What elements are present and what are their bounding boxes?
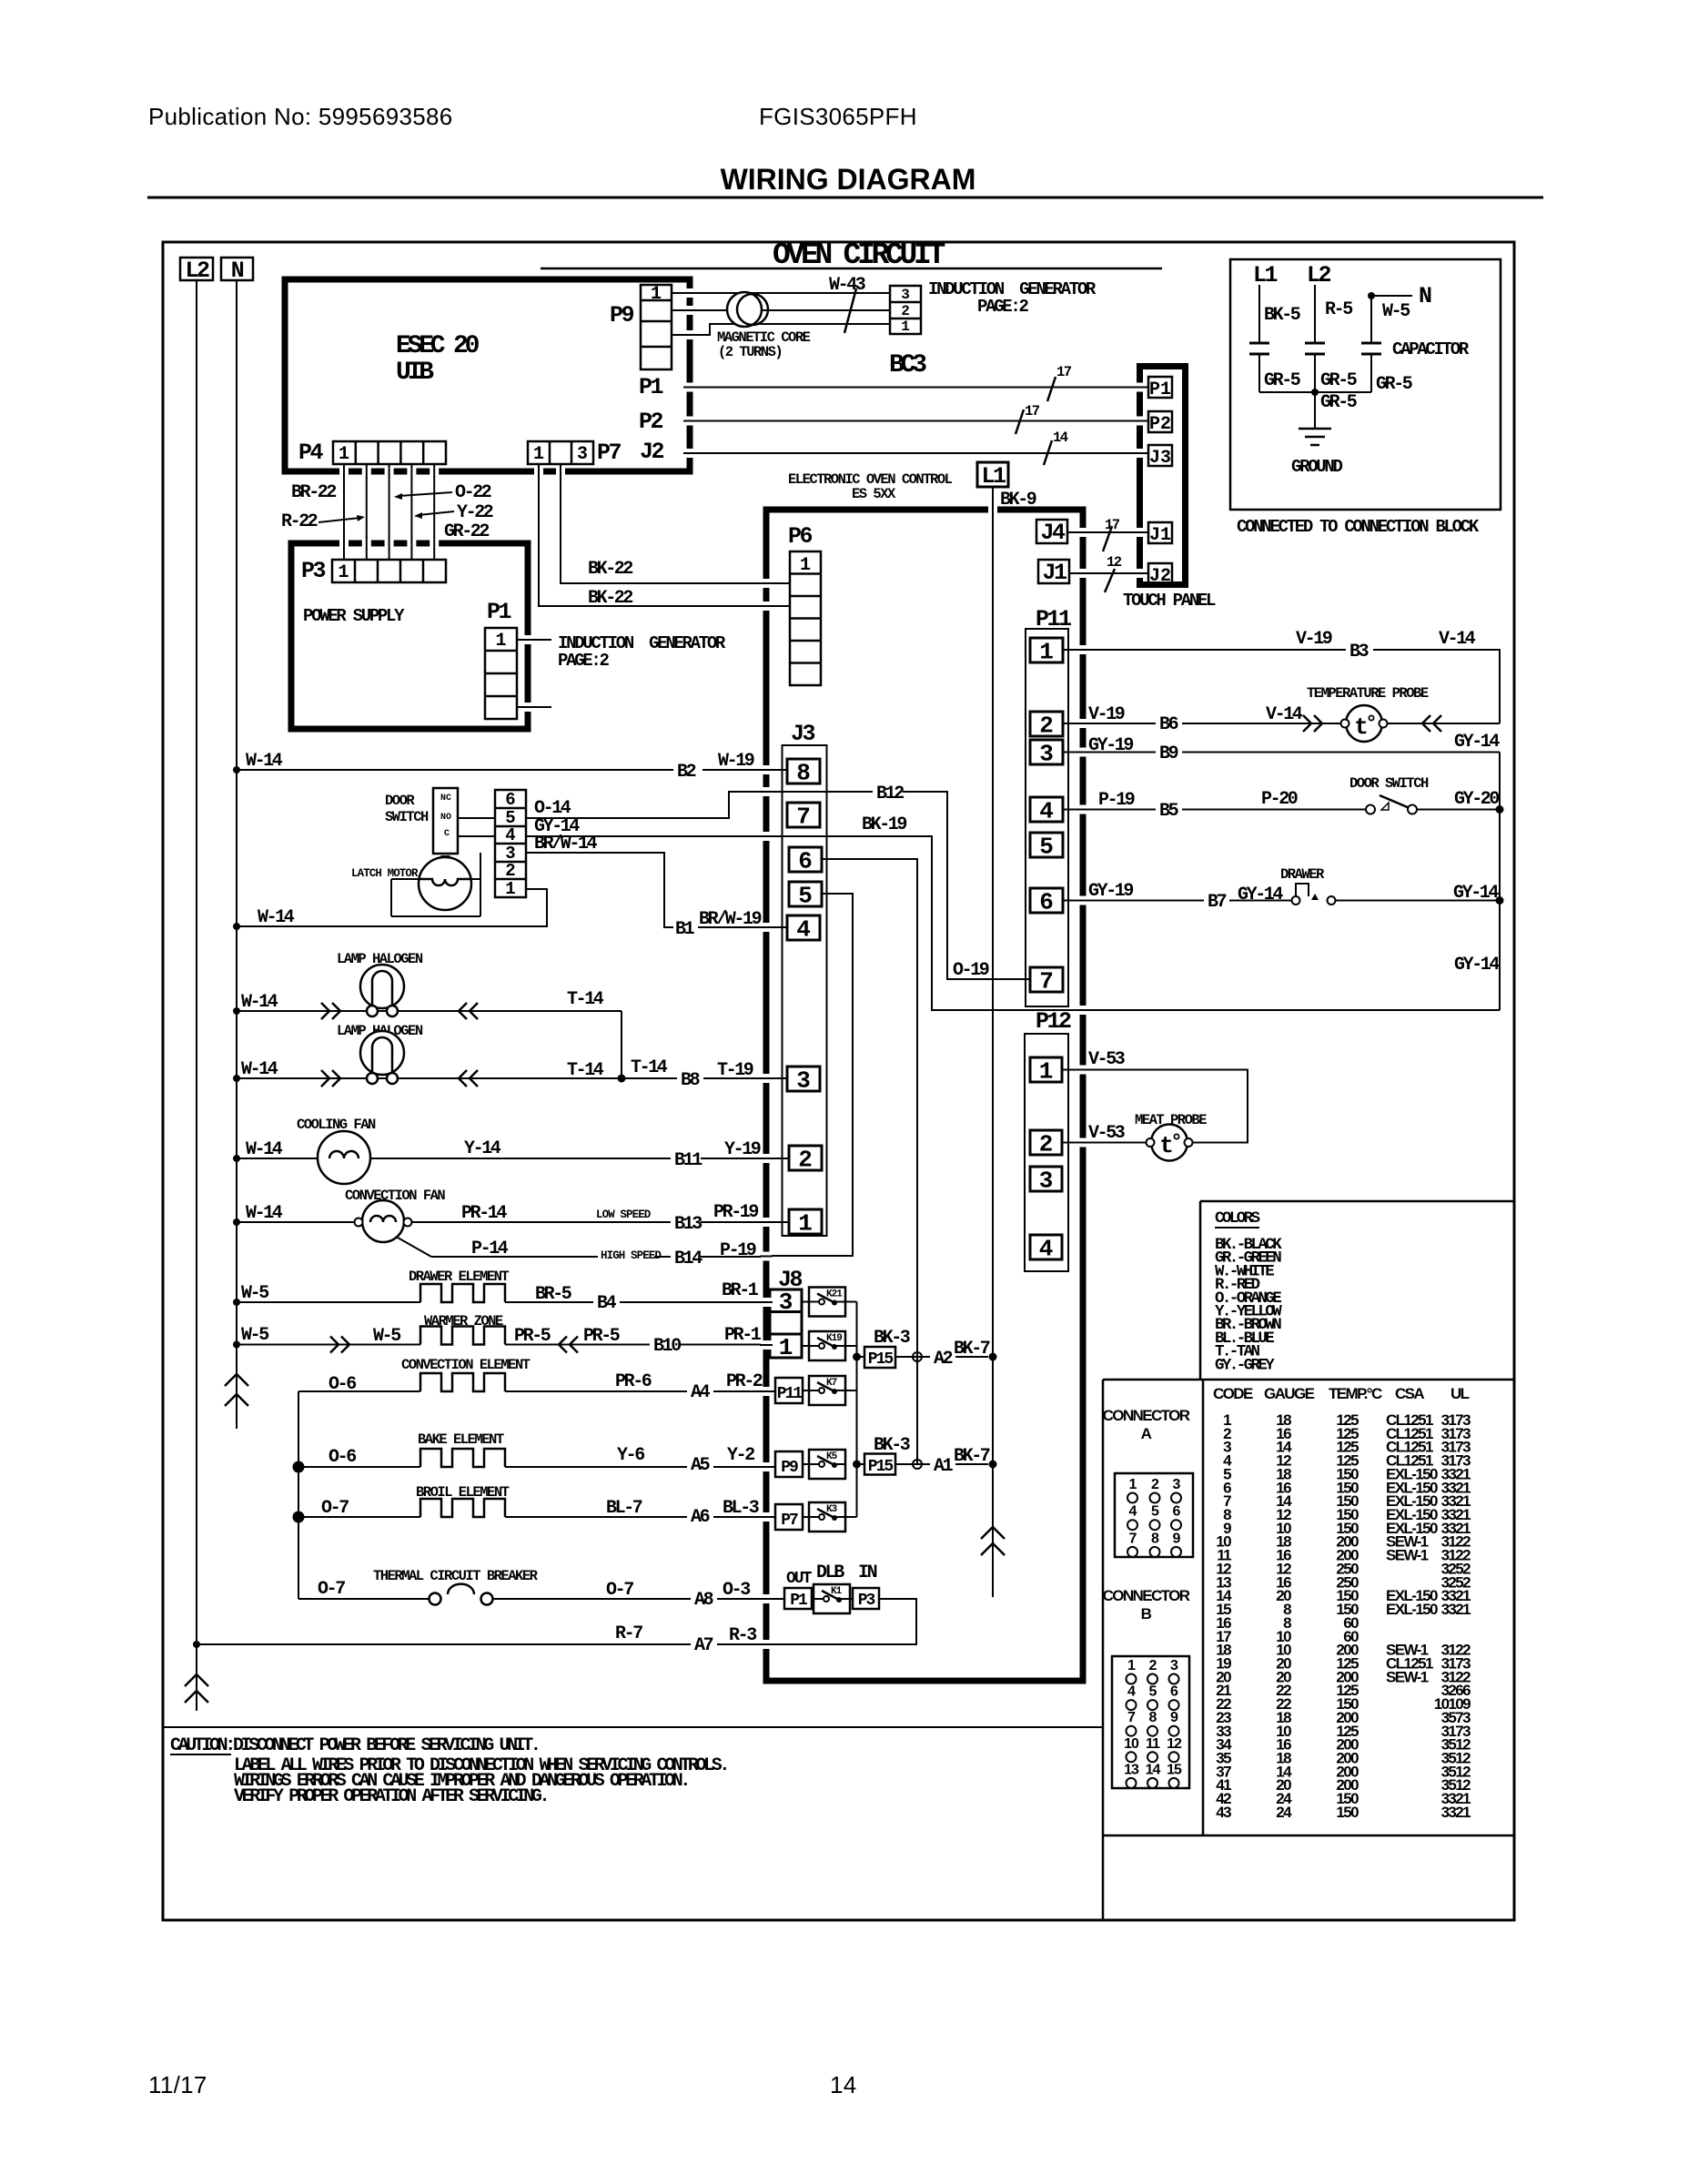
node A6 (687, 1506, 713, 1528)
svg-text:HIGH SPEED: HIGH SPEED (601, 1249, 662, 1262)
ESEC port labels P1 P2 J2 (639, 374, 664, 465)
connector P3 (332, 560, 446, 583)
svg-text:GR-5: GR-5 (1320, 370, 1357, 391)
svg-text:B9: B9 (1159, 743, 1178, 764)
svg-text:J2: J2 (1149, 566, 1171, 587)
svg-text:GY-19: GY-19 (1088, 881, 1133, 902)
svg-text:BR-5: BR-5 (535, 1284, 571, 1305)
node A4 (687, 1381, 713, 1403)
door switch block (433, 788, 458, 854)
node B6 (1156, 713, 1182, 735)
svg-text:P7: P7 (597, 440, 622, 466)
gauge mark 17 on J4 wire (1103, 517, 1120, 551)
svg-text:POWER SUPPLY: POWER SUPPLY (303, 606, 405, 626)
svg-text:2: 2 (1151, 1477, 1159, 1492)
svg-text:DISCONNECT POWER BEFORE SERVIC: DISCONNECT POWER BEFORE SERVICING UNIT. (233, 1735, 538, 1756)
svg-text:B3: B3 (1349, 642, 1369, 662)
svg-text:Y-6: Y-6 (617, 1445, 644, 1466)
connector B pin grid (1112, 1656, 1189, 1788)
gauge mark 14 on J2 wire (1044, 430, 1068, 465)
svg-text:B10: B10 (653, 1336, 681, 1357)
touch panel box (1140, 367, 1186, 585)
connector J3 pin 8 (787, 759, 820, 787)
wire edge to DLB P1 (770, 1598, 784, 1600)
capacitor C1 (1249, 343, 1269, 392)
svg-text:SWITCH: SWITCH (385, 809, 429, 825)
node L2 box (180, 258, 213, 284)
gauge mark 12 on J1 wire (1105, 554, 1122, 592)
wire P9-2 to induction generator pin 2 (672, 309, 890, 311)
svg-text:B6: B6 (1159, 714, 1178, 735)
node B13 (671, 1213, 702, 1235)
svg-text:B1: B1 (675, 919, 695, 940)
connector P11 pin 2 (1030, 712, 1063, 740)
svg-text:W-14: W-14 (258, 907, 295, 928)
wire J1 to touch panel J2 (1069, 572, 1148, 574)
touch panel pin J3 (1148, 445, 1172, 469)
svg-text:5: 5 (1149, 1684, 1157, 1700)
svg-text:7: 7 (1039, 968, 1054, 996)
ground symbol (1299, 429, 1331, 445)
svg-text:3321: 3321 (1441, 1601, 1471, 1618)
wire V-53 to meat probe (1062, 1142, 1150, 1144)
svg-text:PR-5: PR-5 (514, 1326, 551, 1347)
EOC port P11 box (convection element) (775, 1378, 803, 1403)
connector P7 (528, 441, 593, 465)
svg-text:PR-6: PR-6 (615, 1371, 652, 1392)
svg-text:15: 15 (1167, 1762, 1182, 1777)
connector arrows lamp2 right (459, 1070, 478, 1087)
svg-text:A1: A1 (934, 1456, 954, 1477)
svg-text:PAGE:2: PAGE:2 (558, 651, 610, 671)
wire P9 box to relay K5 (803, 1463, 809, 1465)
wire P7 box to relay K3 (803, 1516, 809, 1518)
svg-text:A6: A6 (691, 1507, 710, 1528)
node B3 (1346, 641, 1373, 662)
connector P11 pin 1 (1030, 638, 1063, 666)
svg-text:P-14: P-14 (471, 1239, 509, 1259)
wire L2 lead R-5 (1314, 285, 1316, 343)
svg-text:BR/W-14: BR/W-14 (534, 834, 598, 854)
connector arrows lamp2 left (321, 1070, 340, 1087)
wire W-14 convection fan PR-19 to J3-1 (233, 1218, 789, 1226)
svg-text:V-14: V-14 (1439, 629, 1476, 650)
lamp halogen 1 (360, 965, 404, 1016)
svg-text:DRAWER ELEMENT: DRAWER ELEMENT (409, 1269, 509, 1285)
wire J2 to touch panel J3 (693, 452, 1148, 454)
svg-text:11/17: 11/17 (148, 2071, 207, 2098)
svg-text:T-14: T-14 (567, 989, 604, 1010)
wire W-14 lamp2 T-19 to J3-3 (233, 1075, 787, 1083)
wire W-14 cooling fan Y-19 to J3-2 (233, 1155, 789, 1162)
svg-text:CONNECTED TO CONNECTION BLOCK: CONNECTED TO CONNECTION BLOCK (1237, 517, 1480, 537)
svg-text:GY-20: GY-20 (1454, 789, 1499, 810)
svg-text:14: 14 (1146, 1762, 1161, 1777)
svg-text:1: 1 (339, 444, 349, 465)
svg-text:BK-7: BK-7 (954, 1446, 990, 1467)
relay K21 (809, 1288, 845, 1317)
svg-text:GR-5: GR-5 (1264, 370, 1300, 391)
relay output bus (853, 1302, 861, 1518)
colors legend box (1200, 1201, 1514, 1380)
touch panel pin P2 (1148, 411, 1172, 435)
svg-text:L2: L2 (1307, 262, 1331, 288)
svg-text:Y-14: Y-14 (464, 1138, 501, 1159)
ELECTRONIC OVEN CONTROL label (788, 471, 953, 502)
node B5 (1156, 800, 1182, 822)
node A1 (930, 1455, 955, 1477)
wire GR-5 bus (1259, 389, 1371, 396)
svg-text:CONVECTION ELEMENT: CONVECTION ELEMENT (401, 1357, 531, 1373)
svg-text:10: 10 (1124, 1736, 1139, 1752)
svg-text:DOOR: DOOR (385, 793, 415, 809)
junction A1 on L1 rail (989, 1461, 997, 1469)
svg-text:GY-19: GY-19 (1088, 735, 1133, 756)
svg-text:THERMAL CIRCUIT BREAKER: THERMAL CIRCUIT BREAKER (373, 1568, 539, 1584)
svg-text:C: C (444, 829, 450, 839)
temperature probe (1341, 705, 1388, 742)
connector arrows warmer left (330, 1337, 349, 1353)
wire W-5 warmer zone PR-1 to J8-1 (233, 1341, 770, 1349)
svg-text:B2: B2 (677, 762, 696, 783)
svg-text:B: B (1141, 1605, 1152, 1623)
svg-text:GY-14: GY-14 (1454, 955, 1500, 976)
connector J3 pin 2 (789, 1146, 822, 1174)
drawer switch (1292, 884, 1336, 905)
node B12 (873, 783, 904, 804)
svg-text:6: 6 (798, 848, 813, 875)
svg-text:4: 4 (505, 825, 515, 845)
CONNECTOR A heading (1103, 1407, 1190, 1442)
door switch (oven) (1366, 795, 1417, 814)
node L1 box (977, 462, 1008, 490)
wire marker W-43 (829, 275, 865, 333)
warmer zone element (420, 1327, 505, 1345)
svg-text:B7: B7 (1208, 892, 1227, 913)
connector J3 pin 5 (789, 882, 822, 910)
svg-text:2: 2 (901, 303, 910, 319)
connector arrows lamp1 left (321, 1003, 340, 1019)
svg-text:BAKE ELEMENT: BAKE ELEMENT (418, 1431, 504, 1448)
touch panel pin P1 (1148, 377, 1172, 400)
svg-text:P12: P12 (1036, 1008, 1071, 1035)
svg-text:O-6: O-6 (329, 1447, 356, 1468)
DOOR SWITCH label (left) (385, 793, 429, 825)
connector P6 (790, 551, 821, 685)
svg-text:1: 1 (798, 1210, 813, 1238)
wire P11 box to relay K7 (803, 1390, 809, 1391)
wire P1-4 stub (517, 706, 551, 708)
svg-text:K5: K5 (826, 1451, 838, 1462)
table headers (1213, 1385, 1470, 1402)
COLORS heading (1215, 1209, 1260, 1228)
wire O-6 bake element Y-2 to P9 box (293, 1461, 776, 1473)
connector P12 enclosure (1025, 1034, 1068, 1271)
svg-text:T-14: T-14 (567, 1060, 604, 1081)
connector J3 enclosure (783, 745, 827, 1236)
labels BK-5 R-5 W-5 (1264, 299, 1410, 326)
svg-text:O-19: O-19 (953, 960, 989, 981)
connector P11 pin 5 (1030, 833, 1063, 861)
svg-text:IN: IN (858, 1562, 877, 1583)
svg-text:W-5: W-5 (1382, 301, 1410, 322)
svg-text:9: 9 (1170, 1710, 1178, 1725)
svg-text:CODE: CODE (1213, 1385, 1253, 1402)
relay K3 (809, 1502, 845, 1532)
connector P11 pin 3 (1030, 740, 1063, 768)
wire N lead W-5 (1368, 292, 1412, 343)
wire V-53 loop to meat probe (1062, 1070, 1248, 1143)
svg-text:GY.-GREY: GY.-GREY (1215, 1356, 1275, 1374)
convection fan motor (355, 1200, 412, 1242)
svg-text:GAUGE: GAUGE (1264, 1385, 1315, 1402)
CONNECTOR B heading (1103, 1587, 1190, 1623)
svg-text:R-3: R-3 (729, 1625, 756, 1646)
svg-text:2: 2 (798, 1147, 813, 1174)
wire B5 P-19 to door switch (1063, 809, 1366, 811)
svg-text:150: 150 (1336, 1804, 1359, 1821)
svg-text:BL-7: BL-7 (606, 1498, 642, 1519)
svg-text:EXL-150: EXL-150 (1386, 1601, 1438, 1618)
svg-text:SEW-1: SEW-1 (1386, 1547, 1429, 1564)
wire B7 GY-19 to drawer switch (1063, 900, 1291, 902)
svg-text:L2: L2 (185, 258, 209, 284)
svg-text:GR-22: GR-22 (444, 521, 489, 542)
svg-text:12: 12 (1107, 554, 1122, 571)
svg-text:8: 8 (796, 760, 811, 787)
wire gauge table rows (1216, 1411, 1471, 1821)
svg-text:2: 2 (505, 861, 515, 881)
svg-text:PR-14: PR-14 (461, 1203, 507, 1224)
node A7 (691, 1634, 717, 1656)
svg-text:O-22: O-22 (455, 482, 491, 503)
node B11 (671, 1149, 702, 1171)
svg-text:BR/W-19: BR/W-19 (699, 909, 762, 930)
svg-text:V-19: V-19 (1088, 704, 1125, 725)
svg-text:3: 3 (901, 287, 910, 303)
magnetic core label (717, 329, 811, 360)
svg-text:K21: K21 (826, 1289, 843, 1300)
node B10 (650, 1335, 681, 1357)
svg-text:P2: P2 (1149, 414, 1171, 435)
svg-text:3321: 3321 (1441, 1804, 1471, 1821)
wire K1 to P3 (849, 1598, 853, 1600)
svg-text:P7: P7 (781, 1512, 798, 1530)
svg-text:W-43: W-43 (829, 275, 865, 296)
relay K1 (814, 1584, 850, 1613)
svg-text:BK-22: BK-22 (588, 559, 632, 580)
svg-text:OVEN CIRCUIT: OVEN CIRCUIT (773, 238, 945, 272)
connector J3 pin 3 (787, 1067, 820, 1095)
wire label Y-22 (414, 502, 493, 523)
induction generator reference label (928, 279, 1097, 317)
svg-text:DOOR SWITCH: DOOR SWITCH (1349, 775, 1429, 792)
wire P9-3 to induction generator pin 1 (672, 324, 890, 335)
svg-text:O-3: O-3 (723, 1580, 750, 1601)
svg-text:P15: P15 (868, 1350, 894, 1369)
svg-text:A7: A7 (694, 1635, 713, 1656)
connector J3 pin 6 (789, 847, 822, 875)
svg-text:VERIFY PROPER OPERATION AFTER: VERIFY PROPER OPERATION AFTER SERVICING. (234, 1786, 547, 1807)
wire P-14 high speed to J3-5 (398, 1238, 766, 1257)
connector P9 (641, 284, 672, 369)
svg-text:CSA: CSA (1395, 1385, 1424, 1402)
svg-text:4: 4 (1129, 1504, 1137, 1520)
svg-text:CONNECTOR: CONNECTOR (1103, 1407, 1190, 1424)
node A2 (930, 1348, 955, 1370)
svg-text:A2: A2 (934, 1349, 953, 1370)
svg-text:14: 14 (1053, 430, 1068, 446)
wire BK-22 lower from P7-1 to P6 (539, 464, 790, 606)
svg-text:t: t (1159, 1132, 1174, 1159)
bake element (420, 1449, 505, 1467)
svg-text:CAPACITOR: CAPACITOR (1392, 339, 1470, 359)
svg-text:K7: K7 (826, 1378, 837, 1389)
wire B12 O-14 to O-19 P11-7 (526, 792, 1030, 979)
L1 rail continuation chevrons (981, 1527, 1005, 1555)
svg-text:PR-2: PR-2 (726, 1371, 763, 1392)
svg-text:L1: L1 (981, 463, 1006, 490)
svg-text:W-14: W-14 (246, 751, 283, 772)
cooling fan motor (318, 1131, 370, 1184)
electronic oven control box ES 5XX (766, 510, 1083, 1681)
svg-text:B11: B11 (674, 1150, 702, 1171)
svg-text:TEMPERATURE PROBE: TEMPERATURE PROBE (1307, 685, 1429, 702)
svg-text:BK-3: BK-3 (874, 1328, 910, 1349)
junction A2 on L1 rail (989, 1353, 997, 1361)
svg-text:GR-5: GR-5 (1376, 374, 1412, 395)
capacitor C3 (1361, 343, 1381, 392)
N rail continuation chevrons (225, 1374, 248, 1406)
svg-text:NC: NC (440, 794, 451, 804)
connector P12 pin 4 (1030, 1235, 1062, 1263)
connector arrows warmer right (559, 1337, 578, 1353)
svg-text:5: 5 (798, 883, 813, 910)
svg-text:17: 17 (1056, 364, 1072, 380)
wire W-14 to latch connector 1 (233, 889, 547, 930)
node B4 (593, 1292, 620, 1314)
wire P2 to touch panel P2 (693, 420, 1148, 422)
DLB labels OUT DLB IN (786, 1562, 877, 1588)
relay K5 (809, 1450, 845, 1479)
node A8 (691, 1589, 717, 1611)
svg-text:W-19: W-19 (718, 751, 754, 772)
connector P11 pin 6 (1030, 888, 1063, 916)
thermal circuit breaker (430, 1584, 493, 1605)
svg-text:P1: P1 (487, 599, 511, 625)
svg-text:DLB: DLB (816, 1562, 844, 1583)
svg-text:B4: B4 (597, 1293, 617, 1314)
wire label R-22 (281, 511, 365, 532)
svg-text:K3: K3 (826, 1504, 838, 1515)
svg-text:P-19: P-19 (720, 1240, 756, 1261)
svg-text:V-53: V-53 (1088, 1049, 1125, 1070)
connector P15 lower (857, 1454, 896, 1477)
svg-text:O-7: O-7 (318, 1579, 345, 1600)
node B9 (1156, 743, 1182, 764)
svg-text:SEW-1: SEW-1 (1386, 1668, 1429, 1685)
wire R-7 to A7 R-3 (193, 1641, 770, 1648)
svg-text:O-6: O-6 (329, 1374, 356, 1395)
svg-text:8: 8 (1149, 1710, 1157, 1725)
svg-text:BR-1: BR-1 (722, 1280, 759, 1301)
svg-text:17: 17 (1025, 403, 1040, 420)
connector P4 (333, 441, 446, 465)
svg-text:J4: J4 (1040, 520, 1066, 546)
svg-text:R-5: R-5 (1325, 299, 1352, 320)
gauge mark 17 on P1 wire (1047, 364, 1072, 401)
wire L1 lead BK-5 (1258, 285, 1260, 343)
svg-text:Y-22: Y-22 (457, 502, 493, 523)
wire L2 rail (196, 280, 197, 1711)
wire B9 GY-19 to GY bus (1063, 752, 1500, 753)
svg-text:BL-3: BL-3 (723, 1498, 759, 1519)
svg-text:GY-14: GY-14 (1453, 883, 1499, 904)
wire W-5 drawer element BR-1 to J8-3 (233, 1299, 770, 1306)
EOC port P7 box (broil element) (775, 1504, 803, 1530)
connector P15 upper (857, 1347, 896, 1369)
svg-text:4: 4 (796, 916, 811, 944)
touch panel pin J2 (1148, 563, 1172, 587)
svg-text:COLORS: COLORS (1215, 1209, 1260, 1228)
svg-text:P1: P1 (639, 374, 663, 400)
svg-text:V-14: V-14 (1266, 704, 1303, 725)
svg-text:1: 1 (1039, 1058, 1054, 1086)
svg-text:NO: NO (440, 813, 451, 823)
svg-text:GROUND: GROUND (1291, 457, 1343, 477)
wire temperature probe return (1388, 723, 1500, 724)
svg-text:PR-1: PR-1 (724, 1325, 762, 1346)
svg-text:P3: P3 (301, 558, 326, 584)
svg-text:Y-19: Y-19 (724, 1139, 761, 1160)
caution text block (170, 1735, 727, 1807)
node N box (221, 258, 253, 284)
svg-text:P11: P11 (777, 1385, 804, 1403)
svg-text:J2: J2 (640, 439, 664, 465)
svg-text:W-5: W-5 (241, 1325, 268, 1346)
L2 rail continuation chevrons (185, 1674, 208, 1703)
wire O-7 thermal breaker O-3 to DLB P1 (298, 1598, 770, 1600)
wires P4 to P3 (344, 464, 434, 560)
svg-text:A8: A8 (694, 1590, 713, 1611)
svg-text:7: 7 (1129, 1531, 1137, 1546)
svg-text:7: 7 (796, 804, 811, 831)
connector J3 pin 1 (789, 1209, 822, 1238)
svg-text:P6: P6 (788, 523, 813, 550)
wire P9-1 to induction generator pin 3 (672, 292, 890, 294)
svg-text:ES 5XX: ES 5XX (852, 486, 896, 502)
svg-text:4: 4 (1039, 798, 1054, 825)
svg-text:ESEC 20: ESEC 20 (396, 332, 480, 360)
meat probe (1147, 1125, 1193, 1161)
magnetic core (727, 292, 768, 327)
connector P12 pin 1 (1030, 1057, 1062, 1086)
svg-text:9: 9 (1173, 1531, 1181, 1546)
wire BK-19 GY-14 return to bus (526, 836, 1500, 1010)
wire J8-3 to relay K21 (802, 1301, 809, 1303)
colors list (1215, 1236, 1282, 1374)
svg-text:1: 1 (651, 284, 662, 305)
connector P1 (power supply) (485, 628, 517, 719)
node B8 (677, 1069, 703, 1091)
svg-text:2: 2 (1039, 713, 1054, 740)
broil element (420, 1499, 505, 1517)
svg-text:BC3: BC3 (889, 351, 926, 379)
latch motor wiring loop (391, 853, 480, 916)
svg-text:5: 5 (1151, 1504, 1159, 1520)
svg-text:CONNECTOR: CONNECTOR (1103, 1587, 1190, 1604)
door switch to latch motor link (440, 855, 450, 863)
